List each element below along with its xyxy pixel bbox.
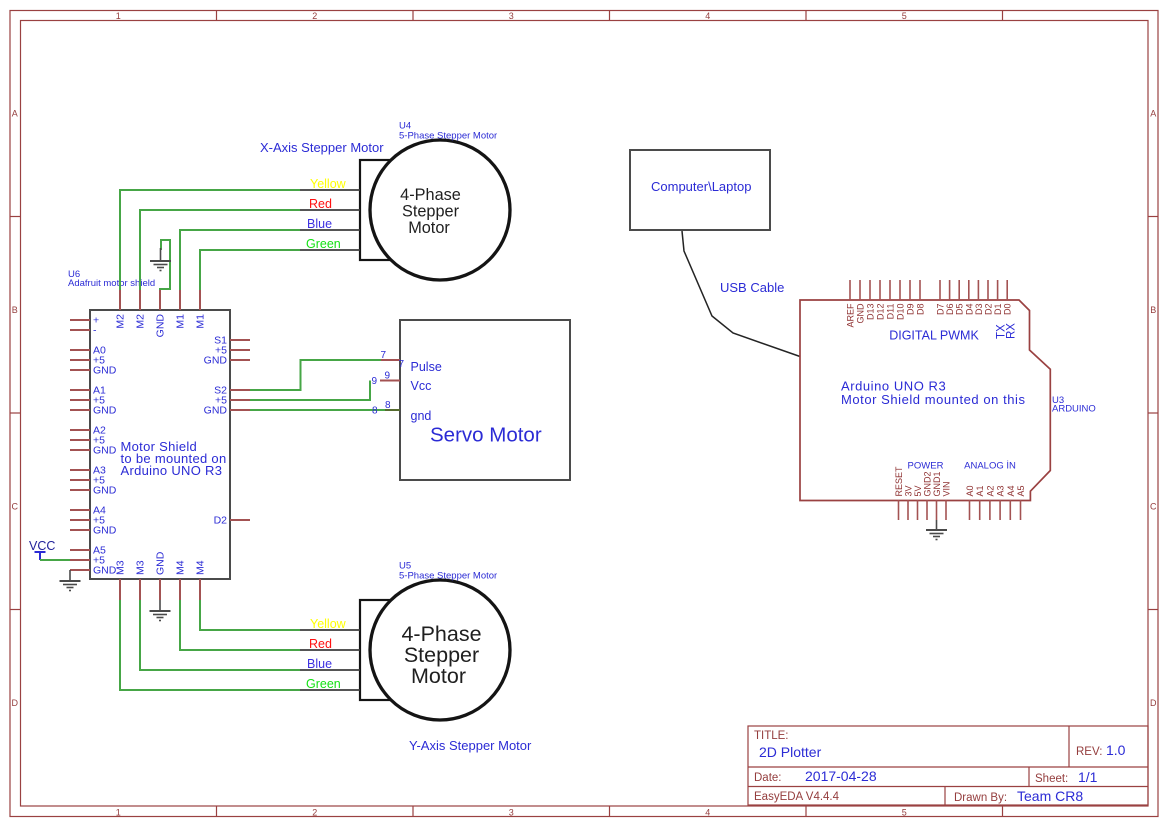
motor shield U6 body: [90, 310, 230, 579]
U6 bottom pins: [120, 579, 200, 600]
USB cable: [682, 231, 800, 357]
svg-text:Blue: Blue: [307, 657, 332, 671]
frame column ticks top: [217, 11, 1003, 21]
U6 top pins: [120, 290, 200, 310]
svg-text:D2: D2: [984, 304, 994, 316]
svg-text:M1: M1: [175, 314, 187, 329]
servo pin Vcc: [380, 380, 400, 382]
svg-text:M4: M4: [195, 560, 207, 575]
svg-text:GND: GND: [93, 405, 117, 417]
computer laptop box: [630, 150, 770, 230]
svg-text:D8: D8: [916, 304, 926, 316]
svg-text:C: C: [1150, 501, 1157, 511]
svg-text:GND: GND: [204, 355, 228, 367]
arduino top pin labels: [846, 303, 1013, 328]
svg-text:1.0: 1.0: [1106, 742, 1126, 758]
stepper motor U4 circle: [370, 140, 510, 280]
svg-text:Green: Green: [306, 677, 341, 691]
svg-text:C: C: [11, 501, 18, 511]
svg-text:D13: D13: [866, 304, 876, 321]
svg-text:9: 9: [385, 371, 391, 382]
svg-text:RESET: RESET: [894, 466, 904, 497]
svg-text:4: 4: [705, 807, 710, 817]
frame row ticks right: [1148, 217, 1158, 610]
svg-text:Drawn By:: Drawn By:: [954, 792, 1007, 804]
wire M1b to Green: [200, 250, 300, 290]
svg-text:EasyEDA V4.4.4: EasyEDA V4.4.4: [754, 791, 840, 803]
svg-text:M4: M4: [175, 560, 187, 575]
svg-text:B: B: [12, 305, 18, 315]
labels TX RX: [996, 323, 1018, 339]
svg-text:1/1: 1/1: [1078, 769, 1098, 785]
svg-text:RX: RX: [1006, 323, 1018, 339]
frame row letters right: [1150, 108, 1157, 708]
ground (top, near U6): [150, 248, 171, 271]
svg-text:Yellow: Yellow: [310, 617, 347, 631]
arduino U3 body: [800, 300, 1050, 501]
title block field labels: [754, 730, 1102, 804]
svg-text:3V: 3V: [904, 485, 914, 496]
arduino top pins: [850, 280, 1007, 300]
svg-text:3: 3: [509, 11, 514, 21]
U4 circle text: [400, 186, 461, 237]
wire S2 to Pulse: [250, 360, 381, 390]
frame column numbers top: [116, 11, 907, 21]
svg-text:Adafruit motor shield: Adafruit motor shield: [68, 278, 155, 289]
svg-text:GND: GND: [204, 405, 228, 417]
svg-text:M2: M2: [115, 314, 127, 329]
svg-text:5-Phase Stepper Motor: 5-Phase Stepper Motor: [399, 571, 497, 582]
servo pin numbers: [372, 350, 405, 417]
svg-text:Pulse: Pulse: [411, 360, 442, 374]
svg-text:5-Phase Stepper Motor: 5-Phase Stepper Motor: [399, 131, 497, 142]
svg-text:USB Cable: USB Cable: [720, 280, 784, 295]
svg-text:X-Axis Stepper Motor: X-Axis Stepper Motor: [260, 140, 384, 155]
svg-text:Yellow: Yellow: [310, 177, 347, 191]
svg-text:-: -: [93, 325, 97, 337]
svg-text:2D Plotter: 2D Plotter: [759, 744, 822, 760]
svg-text:A4: A4: [1006, 485, 1016, 496]
svg-text:ARDUINO: ARDUINO: [1052, 404, 1096, 415]
svg-text:M3: M3: [135, 560, 147, 575]
svg-text:5: 5: [902, 807, 907, 817]
svg-text:Servo Motor: Servo Motor: [430, 424, 542, 447]
svg-text:9: 9: [372, 376, 378, 387]
svg-text:GND: GND: [93, 445, 117, 457]
svg-text:GND2: GND2: [923, 471, 933, 496]
svg-text:Vcc: Vcc: [411, 379, 432, 393]
svg-text:5V: 5V: [913, 485, 923, 496]
svg-text:3: 3: [509, 807, 514, 817]
U6 left pins: [70, 320, 90, 570]
svg-text:Red: Red: [309, 197, 332, 211]
frame row letters left: [11, 108, 18, 708]
svg-text:D12: D12: [876, 304, 886, 321]
svg-text:B: B: [1150, 305, 1156, 315]
servo pin Pulse: [381, 359, 400, 361]
wire M2a to Yellow: [120, 190, 300, 290]
servo motor body: [400, 320, 570, 480]
svg-text:D: D: [1150, 698, 1157, 708]
svg-text:D0: D0: [1003, 304, 1013, 316]
svg-text:4: 4: [705, 11, 710, 21]
U6 inner description text: [121, 439, 227, 478]
U6 top pin labels: [115, 314, 207, 338]
svg-text:Arduino UNO R3: Arduino UNO R3: [121, 463, 223, 478]
svg-text:D4: D4: [964, 304, 974, 316]
ground (left of U6 bottom): [60, 570, 81, 591]
svg-text:D7: D7: [936, 304, 946, 316]
svg-text:D6: D6: [945, 304, 955, 316]
svg-text:Motor Shield mounted on this: Motor Shield mounted on this: [841, 392, 1026, 407]
svg-text:M3: M3: [115, 560, 127, 575]
svg-text:8: 8: [385, 400, 391, 411]
svg-text:GND: GND: [856, 303, 866, 324]
U4 pins: [300, 190, 360, 250]
arduino bottom pin labels: [894, 466, 1026, 497]
svg-text:Sheet:: Sheet:: [1035, 773, 1068, 785]
svg-text:Motor: Motor: [408, 219, 450, 237]
svg-text:2: 2: [312, 807, 317, 817]
svg-text:7: 7: [399, 359, 405, 370]
svg-text:VIN: VIN: [942, 481, 952, 496]
svg-text:Green: Green: [306, 237, 341, 251]
frame row ticks left: [10, 217, 21, 610]
U4 reference label: [399, 121, 497, 142]
svg-text:A3: A3: [996, 485, 1006, 496]
svg-text:GND: GND: [93, 525, 117, 537]
svg-text:GND: GND: [93, 485, 117, 497]
wire +5 to Vcc: [250, 381, 370, 401]
svg-text:Date:: Date:: [754, 772, 782, 784]
svg-text:M2: M2: [135, 314, 147, 329]
svg-text:AREF: AREF: [846, 303, 856, 328]
ground (below arduino GND1): [926, 520, 947, 540]
servo pin labels: [411, 360, 442, 423]
svg-text:GND1: GND1: [932, 471, 942, 496]
wire GND to gnd: [250, 409, 385, 411]
U5 pins: [300, 630, 360, 690]
svg-text:Motor: Motor: [411, 664, 466, 688]
svg-text:Red: Red: [309, 637, 332, 651]
svg-text:GND: GND: [93, 365, 117, 377]
frame column ticks bottom: [217, 806, 1003, 817]
svg-text:D3: D3: [974, 304, 984, 316]
svg-text:D11: D11: [886, 304, 896, 320]
svg-text:DIGITAL PWMK: DIGITAL PWMK: [889, 329, 979, 343]
svg-text:D: D: [11, 698, 18, 708]
svg-text:5: 5: [902, 11, 907, 21]
svg-text:A0: A0: [965, 485, 975, 496]
wire M1a to Blue: [180, 230, 300, 290]
U6 right pins: [230, 340, 250, 520]
svg-text:A: A: [1150, 108, 1156, 118]
title block: [748, 726, 1148, 805]
svg-text:A2: A2: [985, 485, 995, 496]
servo pin gnd: [385, 409, 400, 411]
svg-text:A5: A5: [1016, 485, 1026, 496]
U6 right pin labels: [204, 335, 228, 527]
svg-text:4-Phase: 4-Phase: [400, 186, 461, 204]
svg-text:2: 2: [312, 11, 317, 21]
U5 reference label: [399, 561, 497, 582]
svg-text:D5: D5: [955, 304, 965, 316]
svg-text:D9: D9: [906, 304, 916, 316]
arduino bottom pins: [899, 500, 1021, 520]
svg-text:GND: GND: [93, 565, 117, 577]
wire M3a to Green (Y motor): [120, 600, 300, 690]
svg-text:Computer\Laptop: Computer\Laptop: [651, 179, 751, 194]
arduino description text: [841, 379, 1026, 408]
wire GND loop to ground: [160, 240, 170, 290]
U5 circle text: [401, 622, 481, 688]
svg-text:1: 1: [116, 11, 121, 21]
Y-axis motor bracket rect: [360, 600, 440, 700]
svg-text:Blue: Blue: [307, 217, 332, 231]
svg-text:gnd: gnd: [411, 409, 432, 423]
title block values: [759, 742, 1126, 804]
svg-text:REV:: REV:: [1076, 746, 1102, 758]
svg-text:D1: D1: [993, 304, 1003, 316]
wire M2b to Red: [140, 210, 300, 290]
svg-text:2017-04-28: 2017-04-28: [805, 768, 877, 784]
svg-text:D10: D10: [896, 304, 906, 321]
svg-text:Team CR8: Team CR8: [1017, 788, 1083, 804]
U6 left pin labels: [93, 315, 117, 577]
frame column numbers bottom: [116, 807, 907, 817]
svg-text:A1: A1: [975, 485, 985, 496]
svg-text:7: 7: [381, 350, 387, 361]
svg-text:M1: M1: [195, 314, 207, 329]
stepper motor U5 circle: [370, 580, 510, 720]
VCC net flag: [35, 552, 46, 560]
wire M4b to Yellow (Y motor): [200, 600, 300, 630]
svg-text:TITLE:: TITLE:: [754, 730, 789, 742]
wire M3b to Blue (Y motor): [140, 600, 300, 670]
svg-text:GND: GND: [155, 314, 167, 338]
svg-text:ANALOG İN: ANALOG İN: [964, 461, 1016, 472]
svg-text:VCC: VCC: [29, 539, 55, 553]
U6 reference label: [68, 269, 155, 289]
wire VCC to +5: [40, 559, 70, 561]
ground (below U6 bottom GND): [150, 600, 171, 621]
svg-text:8: 8: [372, 406, 378, 417]
svg-text:POWER: POWER: [908, 461, 944, 472]
U6 bottom pin labels: [115, 551, 207, 575]
svg-text:A: A: [12, 108, 18, 118]
svg-text:Stepper: Stepper: [402, 202, 460, 220]
X-axis motor bracket rect: [360, 160, 440, 260]
svg-text:Y-Axis Stepper Motor: Y-Axis Stepper Motor: [409, 738, 532, 753]
svg-text:1: 1: [116, 807, 121, 817]
svg-text:D2: D2: [214, 515, 228, 527]
wire M4a to Red (Y motor): [180, 600, 300, 650]
svg-text:GND: GND: [155, 551, 167, 575]
U3 reference label: [1052, 395, 1096, 415]
